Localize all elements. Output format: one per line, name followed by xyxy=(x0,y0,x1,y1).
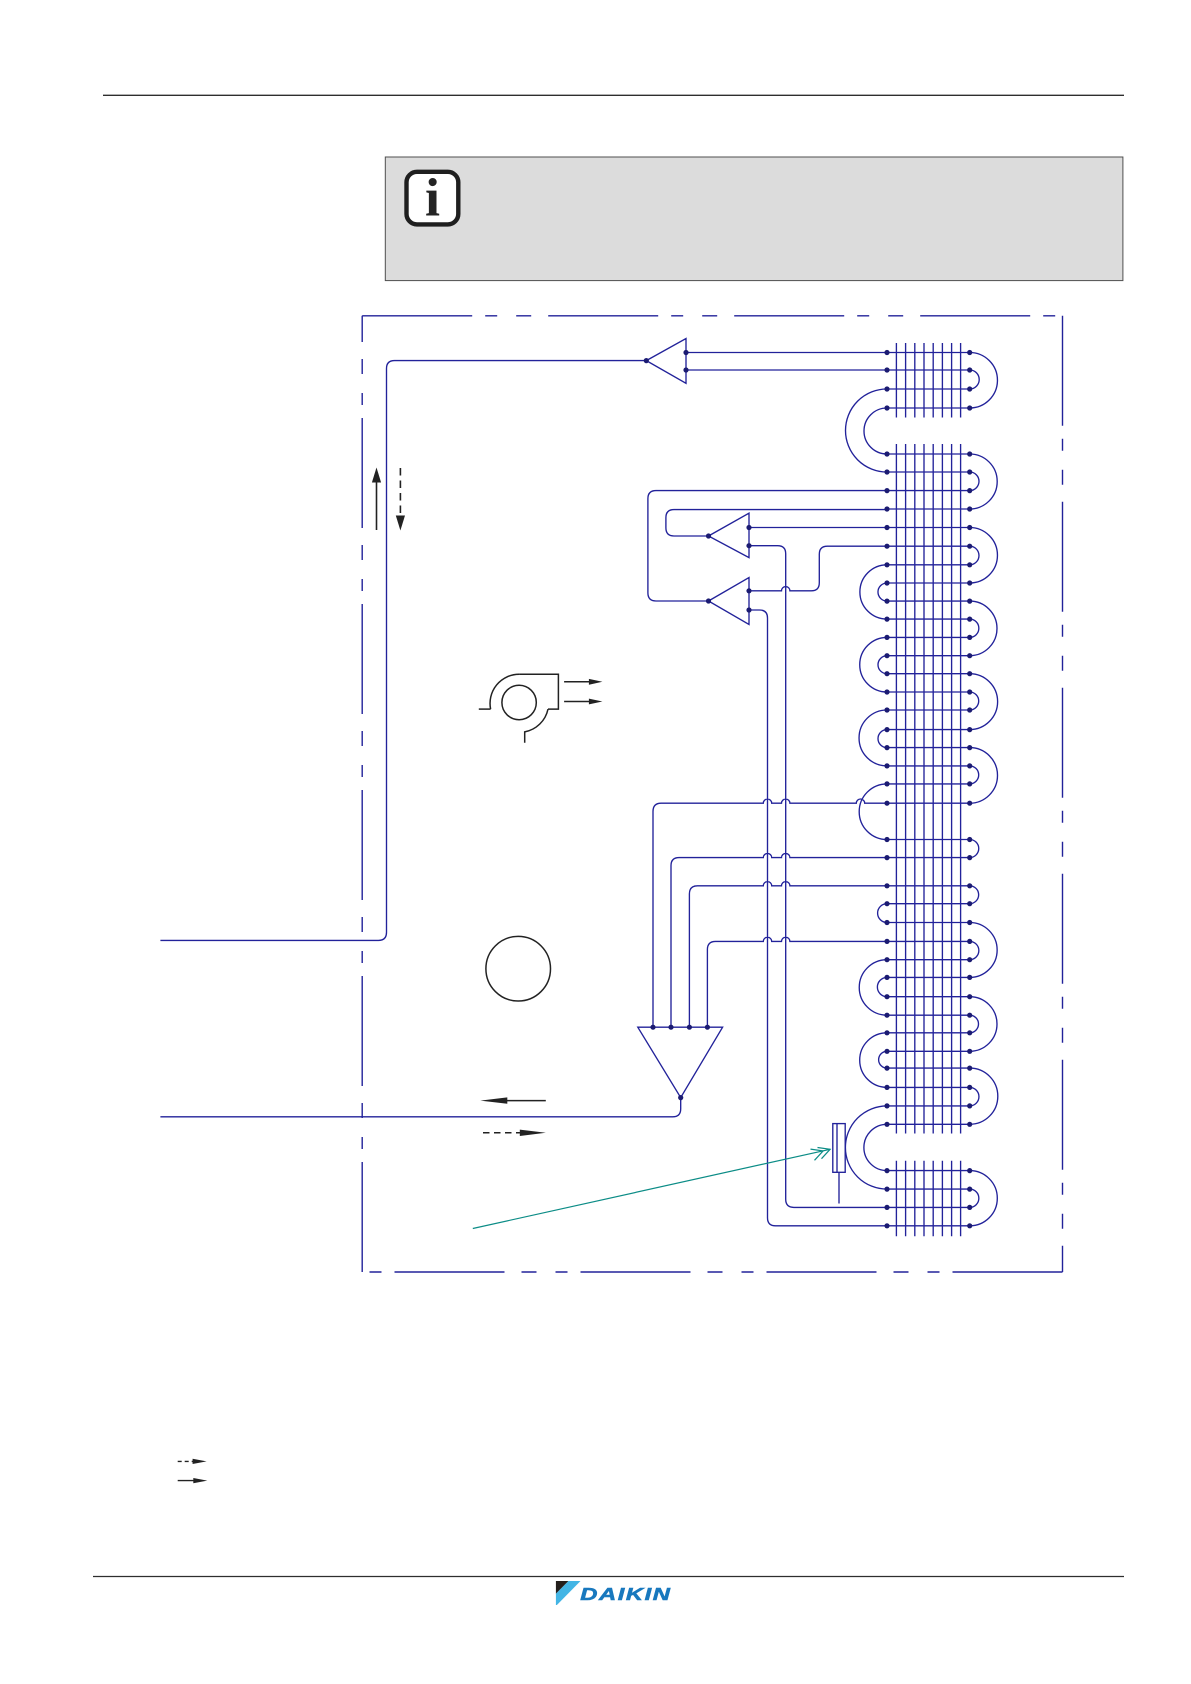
svg-text:i: i xyxy=(425,168,440,228)
svg-text:DAIKIN: DAIKIN xyxy=(580,1584,671,1604)
